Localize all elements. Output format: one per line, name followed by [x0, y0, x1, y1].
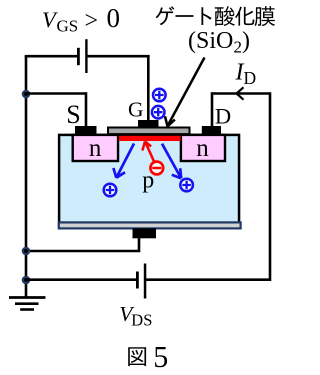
wire gate vertical drop to G stub: [147, 55, 150, 121]
annotation arrow to oxide: [165, 58, 205, 127]
electric field arrow right (blue): [162, 144, 181, 179]
electron attraction arrow (red): [142, 141, 154, 161]
wire drain horizontal to right rail: [212, 92, 270, 95]
node junction dot A (VGS tap): [22, 90, 31, 99]
hole symbol right: [180, 179, 193, 192]
svg-text:): ): [242, 28, 250, 54]
battery BT2 long plate: [144, 264, 147, 299]
svg-text:D: D: [244, 68, 257, 88]
battery BT2 short plate: [136, 272, 139, 289]
svg-text:S: S: [66, 100, 80, 129]
svg-text:GS: GS: [57, 16, 79, 35]
substrate body p-type: [59, 135, 239, 226]
gate contact stub: [138, 120, 159, 128]
caption figure number: [128, 340, 168, 375]
battery BT1 short plate: [77, 48, 80, 65]
gate electrode gray: [108, 128, 190, 135]
svg-text:2: 2: [234, 38, 243, 57]
svg-text:G: G: [128, 98, 144, 122]
svg-text:n: n: [89, 135, 102, 162]
wire top-left from corner to battery BT1: [26, 55, 77, 56]
label gate oxide (Japanese): [156, 6, 275, 26]
svg-text:D: D: [215, 103, 231, 128]
substrate bottom metal layer: [59, 222, 241, 228]
svg-text:(SiO: (SiO: [188, 28, 233, 54]
label VGS>0: [42, 3, 120, 35]
body electrode: [133, 228, 157, 238]
hole symbol left: [104, 184, 117, 197]
svg-text:0: 0: [107, 3, 121, 33]
wire battery BT1 to gate corner: [87, 55, 150, 58]
wire body to left rail: [26, 238, 140, 251]
wire source branch vertical to S electrode: [85, 92, 88, 127]
svg-text:>: >: [85, 8, 99, 34]
wire VDS branch left: [26, 278, 136, 281]
node junction dot C (VDS tap): [22, 276, 31, 285]
svg-text:5: 5: [153, 340, 168, 375]
svg-text:p: p: [142, 168, 154, 194]
wire drain vertical to D electrode: [211, 92, 214, 127]
label VDS: [119, 302, 152, 330]
n+ source region: [73, 135, 118, 161]
svg-text:DS: DS: [131, 311, 152, 330]
positive ion symbol at gate lower: [152, 106, 165, 119]
label (SiO2): [188, 28, 250, 57]
label ID current: [235, 60, 257, 89]
svg-text:n: n: [196, 135, 209, 162]
node junction dot B (body tap): [22, 247, 31, 256]
wire right vertical rail: [146, 92, 270, 280]
arrowhead ID direction: [237, 87, 244, 99]
wire left vertical rail: [25, 56, 28, 297]
battery BT1 long plate: [85, 39, 87, 73]
drain electrode: [202, 126, 221, 135]
n+ drain region: [181, 135, 225, 161]
source electrode: [75, 126, 97, 135]
gate oxide layer red: [119, 136, 181, 141]
electric field arrow left (blue): [113, 144, 134, 178]
positive ion symbol at gate upper: [153, 89, 166, 102]
wire source branch horizontal: [26, 92, 86, 95]
ground symbol: [9, 298, 46, 310]
electron symbol (red minus): [150, 162, 163, 175]
